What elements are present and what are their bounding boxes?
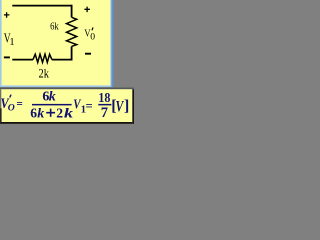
- slide background (light blue): [0, 0, 113, 89]
- formula box: [0, 87, 134, 124]
- wire: bottom right segment: [52, 59, 73, 61]
- circuit picture background (pale yellow): [2, 0, 111, 85]
- picture right border (blue line): [111, 0, 112, 87]
- svg-text:=: =: [16, 98, 22, 110]
- svg-text:k: k: [49, 90, 56, 105]
- svg-text:2: 2: [56, 106, 63, 121]
- minus sign right port: [85, 53, 91, 55]
- svg-text:6: 6: [30, 106, 37, 121]
- svg-text:6k: 6k: [50, 21, 59, 32]
- wire: right vertical top: [71, 5, 73, 18]
- resistor 6k (vertical zigzag): [67, 17, 77, 46]
- svg-text:=: =: [86, 99, 93, 113]
- minus sign left port: [4, 56, 10, 58]
- svg-text:k: k: [64, 107, 73, 122]
- svg-text:]: ]: [124, 98, 129, 115]
- resistor 2k (horizontal zigzag): [33, 54, 52, 62]
- wire: right vertical bottom: [71, 46, 73, 59]
- wire: bottom left segment: [12, 59, 33, 61]
- svg-text:18: 18: [98, 91, 110, 106]
- svg-text:7: 7: [101, 105, 108, 121]
- svg-text:0: 0: [90, 31, 95, 42]
- svg-text:O: O: [8, 102, 15, 113]
- wire: top horizontal: [12, 5, 71, 7]
- gray canvas right of picture: [114, 0, 135, 87]
- fraction bar 1: [32, 104, 72, 106]
- svg-text:2k: 2k: [39, 67, 50, 81]
- plus sign right port: [84, 7, 90, 13]
- plus sign left port: [4, 12, 9, 18]
- svg-text:k: k: [37, 107, 44, 122]
- svg-text:1: 1: [9, 37, 14, 48]
